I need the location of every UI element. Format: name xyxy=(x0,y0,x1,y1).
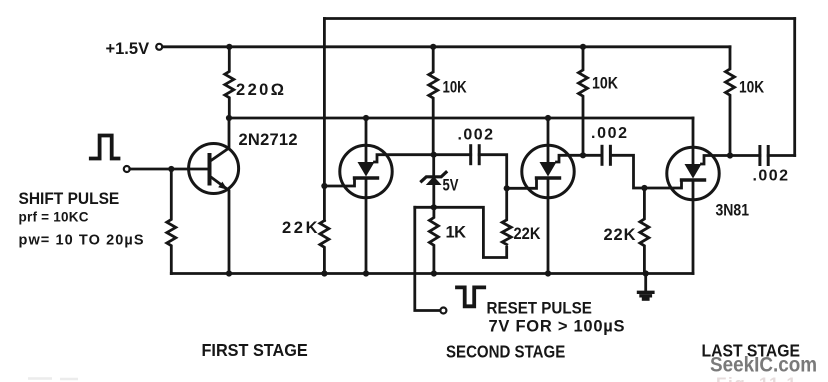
node SCS2 cathode on ground bus xyxy=(545,270,551,276)
SCS1 cathode lead xyxy=(365,178,368,274)
faint bottom-left scan smudge xyxy=(28,377,78,380)
node 10K2 top on rail xyxy=(580,44,586,50)
resistor 22K last stage xyxy=(640,188,649,274)
SCS3 anode lead xyxy=(692,118,695,164)
capacitor C1 .002 xyxy=(434,146,507,189)
node 22K1 on ground bus xyxy=(321,270,327,276)
wire top feedback loop horizontal xyxy=(324,17,794,20)
svg-text:22K: 22K xyxy=(604,226,636,244)
svg-text:SHIFT PULSE: SHIFT PULSE xyxy=(19,191,120,209)
SCS2 body circle xyxy=(522,145,574,197)
wire ground bus bottom rail xyxy=(171,272,693,275)
node SCS1 anode xyxy=(363,115,369,121)
base bar xyxy=(208,155,212,184)
svg-text:1K: 1K xyxy=(446,224,467,242)
resistor 1K xyxy=(429,207,438,273)
SCS2 junction triangle xyxy=(540,162,557,177)
zener triangle xyxy=(426,176,442,185)
shift pulse waveform symbol xyxy=(91,136,119,159)
zener anode lead xyxy=(432,185,435,208)
ground xyxy=(639,274,653,300)
SCS3 cathode-gate lead xyxy=(644,180,681,188)
svg-text:FIRST STAGE: FIRST STAGE xyxy=(202,340,308,360)
svg-text:pw= 10 TO 20µS: pw= 10 TO 20µS xyxy=(19,233,144,249)
svg-text:22K: 22K xyxy=(282,219,318,237)
node SCS3 anode gate xyxy=(727,152,733,158)
SCS1 body circle xyxy=(340,145,392,197)
svg-text:.002: .002 xyxy=(753,168,789,185)
resistor 220Ω xyxy=(225,47,234,118)
SCS3 junction triangle xyxy=(685,164,702,179)
node SCS2 anode gate xyxy=(580,152,586,158)
node shift input junction xyxy=(168,166,174,172)
svg-text:10K: 10K xyxy=(739,78,764,96)
reset pulse waveform symbol xyxy=(457,287,484,306)
svg-text:prf = 10KC: prf = 10KC xyxy=(19,210,89,225)
svg-text:SECOND STAGE: SECOND STAGE xyxy=(446,342,565,361)
svg-text:10K: 10K xyxy=(443,78,467,97)
node +1.5V terminal xyxy=(156,44,162,50)
collector lead xyxy=(210,118,230,162)
node SCS1 cathode on ground bus xyxy=(363,270,369,276)
node 220Ω top on rail xyxy=(226,44,232,50)
emitter lead xyxy=(210,176,230,274)
resistor input shunt xyxy=(167,169,176,274)
SCS2 anode-gate lead xyxy=(557,155,584,162)
node SCS1 anode gate xyxy=(431,152,437,158)
svg-text:22K: 22K xyxy=(514,225,542,243)
SCS3 body circle xyxy=(667,147,719,199)
SCS2 cathode lead xyxy=(547,178,550,274)
SCS1 cathode bar xyxy=(355,176,378,179)
zener cathode lead xyxy=(432,155,435,177)
SCS1 anode-gate lead xyxy=(375,155,434,162)
capacitor C2 .002 xyxy=(583,146,644,188)
svg-text:10K: 10K xyxy=(592,75,618,93)
svg-text:3N81: 3N81 xyxy=(716,201,750,219)
node ground junction xyxy=(643,270,649,276)
SCS U3 3N81 last stage xyxy=(644,118,730,274)
SCS2 cathode-gate lead xyxy=(507,178,537,188)
SCS U1 first stage xyxy=(324,118,433,274)
svg-text:Fig. 11 1: Fig. 11 1 xyxy=(716,374,796,382)
svg-text:220Ω: 220Ω xyxy=(236,81,284,99)
SCS3 anode-gate lead xyxy=(702,156,731,165)
svg-text:2N2712: 2N2712 xyxy=(239,131,298,149)
node collector / 220Ω bottom xyxy=(226,115,232,121)
zener diode 5V xyxy=(422,155,447,208)
node SCS3 cathode gate xyxy=(641,185,647,191)
node SCS1 cathode gate xyxy=(321,183,327,189)
resistor 10K second stage xyxy=(579,47,588,156)
resistor 10K last stage xyxy=(726,47,735,156)
wire feedback right vertical (top loop down to .002 coupling) xyxy=(793,19,796,156)
resistor 10K first stage xyxy=(429,47,438,155)
SCS U2 second stage xyxy=(507,118,583,274)
wire feedback left vertical (top loop to first-stage cathode-gate node) xyxy=(323,19,326,221)
wire 22K second bottom return to reset node xyxy=(415,207,507,257)
node shift pulse input terminal xyxy=(124,166,130,172)
node 10K1 top on rail xyxy=(430,44,436,50)
wire reset line xyxy=(415,207,441,310)
svg-text:.002: .002 xyxy=(458,127,494,144)
svg-text:7V FOR > 100µS: 7V FOR > 100µS xyxy=(489,318,625,336)
node SCS2 anode xyxy=(545,115,551,121)
SCS3 cathode lead xyxy=(692,180,695,274)
transistor body circle xyxy=(189,144,239,194)
svg-text:+1.5V: +1.5V xyxy=(106,40,150,58)
resistor 22K first stage (on feedback vertical) xyxy=(320,221,329,274)
SCS1 cathode-gate lead xyxy=(324,178,354,186)
svg-text:5V: 5V xyxy=(443,177,459,195)
SCS2 anode lead xyxy=(547,118,550,162)
capacitor C3 .002 feedback xyxy=(730,147,795,165)
svg-text:RESET PULSE: RESET PULSE xyxy=(487,300,592,318)
node emitter on ground bus xyxy=(226,270,232,276)
SCS3 cathode bar xyxy=(682,178,705,181)
transistor Q1 2N2712 xyxy=(189,118,239,274)
zener cathode bar xyxy=(422,172,447,181)
wire +1.5V supply rail xyxy=(161,45,730,48)
node SCS2 cathode gate xyxy=(504,185,510,191)
SCS1 anode lead xyxy=(365,118,368,162)
node zener anode / 1K / reset xyxy=(431,204,437,210)
resistor 22K second stage xyxy=(502,188,511,244)
wire anode bus (collector line) xyxy=(229,117,693,120)
SCS1 junction triangle xyxy=(358,162,375,177)
svg-text:.002: .002 xyxy=(591,125,627,142)
node 1K on ground bus xyxy=(431,270,437,276)
node reset input terminal xyxy=(440,308,446,314)
wire shift input to base xyxy=(130,168,209,171)
emitter arrowhead xyxy=(218,182,227,190)
SCS2 cathode bar xyxy=(537,176,560,179)
